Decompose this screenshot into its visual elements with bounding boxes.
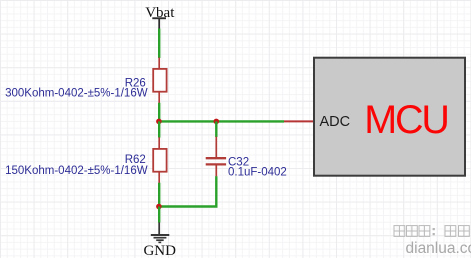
wire node A to ADC pin <box>159 120 284 122</box>
svg-text:MCU: MCU <box>364 98 447 142</box>
resistor R26 <box>153 58 166 104</box>
capacitor C32 <box>206 121 226 176</box>
node C junction <box>156 204 162 210</box>
wire node C to ground <box>158 207 160 223</box>
svg-text:300Kohm-0402-±5%-1/16W: 300Kohm-0402-±5%-1/16W <box>5 88 148 100</box>
wire R26 to node A <box>158 103 160 122</box>
svg-text:dianlua.com: dianlua.com <box>406 240 471 257</box>
svg-text:0.1uF-0402: 0.1uF-0402 <box>228 166 287 178</box>
svg-text:GND: GND <box>143 243 176 258</box>
svg-text:150Kohm-0402-±5%-1/16W: 150Kohm-0402-±5%-1/16W <box>5 165 148 177</box>
node A junction <box>156 119 162 125</box>
resistor R62 <box>153 121 166 183</box>
ground GND <box>143 222 176 258</box>
pin ADC stub <box>284 120 314 122</box>
MCU block U1 <box>314 58 465 176</box>
node B junction <box>214 119 220 125</box>
svg-text:ADC: ADC <box>320 114 351 130</box>
power port Vbat <box>145 5 175 29</box>
wire R62 to node C <box>158 183 160 207</box>
wire Vbat to R26 <box>158 29 160 59</box>
watermark line 1 (CJK) <box>394 226 469 237</box>
wire C32 to node C <box>159 176 216 206</box>
